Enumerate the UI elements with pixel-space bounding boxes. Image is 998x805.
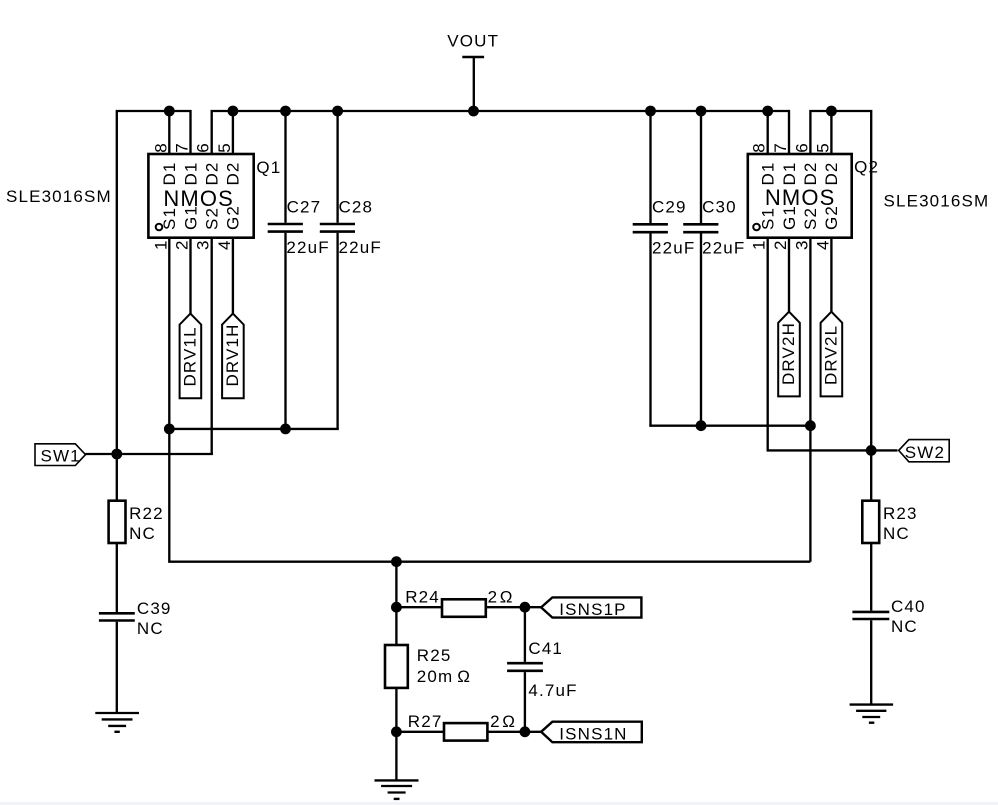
svg-text:6: 6 xyxy=(792,142,811,153)
svg-text:3: 3 xyxy=(792,239,811,250)
svg-text:D2: D2 xyxy=(822,161,841,185)
svg-text:1: 1 xyxy=(750,239,769,250)
resistor R22 xyxy=(109,454,164,612)
transistor Q2 xyxy=(748,154,852,238)
svg-text:R22: R22 xyxy=(129,504,164,523)
svg-text:7: 7 xyxy=(173,142,192,153)
svg-text:2: 2 xyxy=(488,588,499,607)
junction C27 bottom xyxy=(280,424,291,435)
svg-text:D2: D2 xyxy=(801,161,820,185)
svg-text:22uF: 22uF xyxy=(652,239,695,258)
wire S1 Q1 to C27 C28 bottoms xyxy=(169,428,338,430)
pin 4 G2 of Q2 xyxy=(813,205,841,312)
junction pin8 Q2 xyxy=(762,106,773,117)
svg-text:DRV1H: DRV1H xyxy=(223,323,242,386)
svg-text:Ω: Ω xyxy=(502,712,516,731)
svg-text:20m: 20m xyxy=(417,667,454,686)
svg-text:S2: S2 xyxy=(801,207,820,230)
svg-text:Q2: Q2 xyxy=(854,158,879,177)
wire SW1 to S2 Q1 xyxy=(86,453,213,455)
svg-text:C29: C29 xyxy=(652,198,687,217)
pin 7 D1 of Q1 xyxy=(173,142,201,185)
svg-text:DRV2H: DRV2H xyxy=(779,322,798,385)
svg-text:8: 8 xyxy=(151,142,170,153)
junction R24 left xyxy=(391,602,402,613)
wire C29 C30 bottoms to S2 Q2 xyxy=(649,425,811,427)
capacitor C28 xyxy=(320,111,382,429)
junction VOUT on rail xyxy=(468,106,479,117)
svg-text:D2: D2 xyxy=(203,161,222,185)
flag ISNS1P xyxy=(541,597,641,618)
svg-text:2: 2 xyxy=(173,239,192,250)
svg-text:DRV2L: DRV2L xyxy=(822,325,841,385)
svg-text:NC: NC xyxy=(129,524,156,543)
junction S2 Q2 node xyxy=(805,420,816,431)
svg-text:2: 2 xyxy=(771,239,790,250)
pin 5 D2 of Q1 xyxy=(215,111,243,186)
flag DRV1L xyxy=(180,314,202,399)
svg-text:22uF: 22uF xyxy=(286,238,329,257)
junction pin5 Q2 xyxy=(826,106,837,117)
svg-text:C40: C40 xyxy=(891,597,926,616)
svg-text:VOUT: VOUT xyxy=(447,32,499,51)
junction S1 Q1 node xyxy=(164,424,175,435)
svg-text:Q1: Q1 xyxy=(256,158,281,177)
page edge strip xyxy=(0,802,998,805)
svg-text:D1: D1 xyxy=(780,161,799,185)
svg-text:R27: R27 xyxy=(408,712,443,731)
svg-text:G2: G2 xyxy=(822,205,841,230)
svg-text:6: 6 xyxy=(194,142,213,153)
svg-text:SLE3016SM: SLE3016SM xyxy=(884,192,990,211)
svg-text:C41: C41 xyxy=(528,639,563,658)
svg-text:2: 2 xyxy=(490,712,501,731)
capacitor C30 xyxy=(683,111,745,426)
flag DRV2L xyxy=(821,312,843,397)
svg-text:7: 7 xyxy=(771,142,790,153)
svg-text:NC: NC xyxy=(137,619,164,638)
pin 6 D2 of Q2 xyxy=(792,142,820,185)
svg-text:22uF: 22uF xyxy=(339,238,382,257)
power symbol VOUT xyxy=(447,32,499,112)
svg-text:D1: D1 xyxy=(181,161,200,185)
transistor Q1 xyxy=(148,154,253,238)
flag DRV2H xyxy=(778,312,800,397)
ground center xyxy=(375,780,419,799)
flag DRV1H xyxy=(222,314,244,399)
svg-text:C39: C39 xyxy=(137,599,172,618)
svg-text:NC: NC xyxy=(891,617,918,636)
junction C30 top xyxy=(696,106,707,117)
svg-text:G2: G2 xyxy=(224,205,243,230)
junction pin8 Q1 xyxy=(164,106,175,117)
junction C28 top xyxy=(332,106,343,117)
svg-text:SW1: SW1 xyxy=(41,446,81,465)
junction sense to R24 R25 xyxy=(391,556,402,567)
svg-text:D2: D2 xyxy=(224,161,243,185)
svg-text:R24: R24 xyxy=(405,588,440,607)
pin 2 G1 of Q1 xyxy=(173,205,201,313)
svg-text:DRV1L: DRV1L xyxy=(181,326,200,386)
capacitor C41 xyxy=(507,607,578,732)
capacitor C29 xyxy=(633,111,696,426)
flag SW2 xyxy=(899,440,950,462)
pin 8 D1 of Q2 xyxy=(750,111,778,186)
flag SW1 xyxy=(35,444,86,466)
svg-text:D1: D1 xyxy=(759,161,778,185)
pin 6 D2 of Q1 xyxy=(194,142,222,185)
svg-text:Ω: Ω xyxy=(457,667,471,686)
svg-text:1: 1 xyxy=(151,239,170,250)
junction R24 right C41 xyxy=(520,602,531,613)
flag ISNS1N xyxy=(541,722,642,744)
resistor R25 xyxy=(385,607,471,732)
resistor R27 xyxy=(396,712,541,741)
ground right xyxy=(850,705,894,723)
wire R27 to ground xyxy=(395,732,397,781)
junction R27 left xyxy=(391,726,402,737)
svg-text:4.7uF: 4.7uF xyxy=(528,681,577,700)
svg-text:D1: D1 xyxy=(160,161,179,185)
junction C29 top xyxy=(645,106,656,117)
svg-text:8: 8 xyxy=(750,142,769,153)
capacitor C27 xyxy=(268,111,330,429)
wire sense line S1Q1 to S2Q2 xyxy=(169,429,810,562)
svg-text:C28: C28 xyxy=(339,198,374,217)
pin 4 G2 of Q1 xyxy=(215,205,243,313)
svg-text:C30: C30 xyxy=(702,198,737,217)
svg-text:5: 5 xyxy=(813,142,832,153)
junction SW2 node xyxy=(866,445,877,456)
svg-text:G1: G1 xyxy=(780,205,799,230)
svg-text:S2: S2 xyxy=(203,207,222,230)
svg-text:ISNS1N: ISNS1N xyxy=(559,724,627,743)
pin 1 S1 of Q2 xyxy=(750,207,898,450)
pin 8 D1 of Q1 xyxy=(151,111,179,186)
pin 3 S2 of Q1 xyxy=(194,207,222,454)
svg-text:ISNS1P: ISNS1P xyxy=(559,600,626,619)
capacitor C39 xyxy=(99,599,172,713)
junction C30 bottom xyxy=(696,420,707,431)
svg-text:Ω: Ω xyxy=(500,588,514,607)
resistor R24 xyxy=(396,588,541,617)
wire left D1 rail + left vertical to SW1 xyxy=(117,111,191,454)
svg-text:S1: S1 xyxy=(160,207,179,230)
junction SW1 node xyxy=(111,449,122,460)
svg-text:G1: G1 xyxy=(181,205,200,230)
wire right D2 segment + right vertical to SW2 xyxy=(810,111,871,450)
svg-text:SLE3016SM: SLE3016SM xyxy=(6,187,112,206)
wire VOUT rail xyxy=(212,111,789,154)
pin 1 S1 of Q1 xyxy=(151,207,179,429)
pin 7 D1 of Q2 xyxy=(771,110,799,186)
pin 5 D2 of Q2 xyxy=(813,111,841,186)
svg-text:C27: C27 xyxy=(287,198,322,217)
svg-text:SW2: SW2 xyxy=(905,443,945,462)
pin 3 S2 of Q2 xyxy=(792,207,820,562)
svg-text:3: 3 xyxy=(194,239,213,250)
wire sense branch down xyxy=(395,562,397,608)
junction C27 top xyxy=(280,106,291,117)
svg-text:22uF: 22uF xyxy=(702,239,745,258)
resistor R23 xyxy=(862,450,917,610)
svg-text:4: 4 xyxy=(813,239,832,250)
svg-text:5: 5 xyxy=(215,142,234,153)
svg-text:R25: R25 xyxy=(417,646,452,665)
pin 2 G1 of Q2 xyxy=(771,205,799,312)
capacitor C40 xyxy=(852,597,925,705)
svg-text:R23: R23 xyxy=(883,504,918,523)
ground left xyxy=(95,713,139,732)
svg-text:4: 4 xyxy=(215,239,234,250)
svg-text:NC: NC xyxy=(883,524,910,543)
junction R27 right C41 xyxy=(520,726,531,737)
junction pin5 Q1 xyxy=(228,106,239,117)
svg-text:S1: S1 xyxy=(759,207,778,230)
